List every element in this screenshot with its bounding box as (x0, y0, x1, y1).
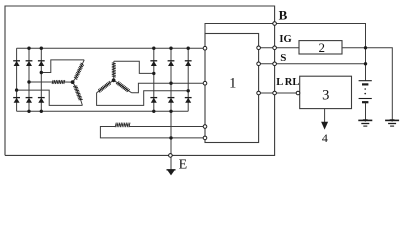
wire L external to unit 3 (275, 92, 297, 94)
node junction (171,48.2) (169, 47, 172, 50)
wire IG connector link (259, 47, 275, 49)
wire top bus (17, 47, 205, 49)
wire rectifier column R3 (187, 48, 189, 111)
wire phase B1 (left arm to left col2) (29, 81, 53, 83)
node junction (171,111.3) (169, 110, 172, 113)
node junction (41.3,48.2) (40, 47, 43, 50)
terminal P terminal (203, 81, 207, 85)
wire field E lead (100, 127, 203, 138)
diode D12 (right bridge bottom) (185, 97, 192, 99)
wire rectifier column L1 (16, 48, 18, 111)
node junction (153.8,48.2) (152, 47, 155, 50)
diode D2 (left bridge top) (26, 60, 33, 62)
stator winding star2 coil left-down arm (97, 91, 100, 93)
diode D9 (right bridge top) (185, 60, 192, 62)
stator winding star1 coil down-right arm (81, 100, 83, 106)
ground (battery) (363, 119, 368, 122)
node junction (188.2,90.8) (187, 89, 190, 92)
resistor/lamp unit 2 box (299, 41, 342, 54)
node star2 neutral (112, 78, 116, 82)
terminal B1 bus terminal (203, 46, 207, 50)
wire rectifier column L2 (28, 48, 30, 111)
battery BT1 (359, 80, 372, 82)
diode D3 (left bridge top) (38, 60, 45, 62)
terminal unit3 terminal (296, 91, 300, 95)
node junction (171,83.2) (169, 82, 172, 85)
wire S connector link (259, 63, 275, 65)
wire E ground stem (170, 157, 172, 170)
wire B output riser (205, 24, 275, 49)
stator winding star2 coil top arm (113, 61, 115, 63)
svg-text:3: 3 (322, 88, 329, 104)
diode D1 (left bridge top) (13, 60, 20, 62)
node junction (29,48.2) (27, 47, 30, 50)
wire phase B2 (left-down arm to right col3) (97, 91, 189, 106)
wire L connector link (259, 92, 275, 94)
svg-text:E: E (179, 158, 188, 173)
wire battery to ground (365, 103, 367, 120)
terminal F terminal (203, 125, 207, 129)
node junction (29,111.3) (27, 110, 30, 113)
terminal Eint terminal (203, 136, 207, 140)
terminal L terminal (273, 91, 277, 95)
wire IG external to resistor 2 (275, 47, 299, 49)
node junction (41.3,111.3) (40, 110, 43, 113)
diode D4 (left bridge bottom) (13, 97, 20, 99)
wire unit 3 output (324, 109, 326, 122)
svg-text:IG: IG (279, 34, 291, 45)
ground arrow E (167, 169, 176, 171)
terminal L box terminal (257, 91, 261, 95)
wire phase C1 (bottom arm to left col1) (17, 90, 83, 105)
svg-text:L: L (276, 77, 283, 88)
node junction (153.8,111.3) (152, 110, 155, 113)
terminal IG box terminal (257, 46, 261, 50)
wire phase A1 (top arm to left col3) (41, 60, 84, 73)
stator winding star1 coil up-right arm (82, 60, 84, 64)
terminal E terminal (169, 154, 173, 158)
wire phase C2 (down-right arm to right col2 and box1 P terminal) (132, 83, 204, 93)
stator winding star1 coil left arm (52, 80, 65, 84)
wire phase A2 (top arm to right col1) (114, 61, 154, 73)
svg-text:RL: RL (285, 77, 300, 88)
wire B external (275, 24, 366, 81)
indicator unit 3 box (300, 76, 352, 108)
ground (load line) (390, 119, 395, 122)
wire resistor 2 output (342, 48, 392, 120)
diode D8 (right bridge top) (168, 60, 175, 62)
node junction (188.2,48.2) (187, 47, 190, 50)
svg-text:4: 4 (322, 131, 328, 145)
terminal S terminal (273, 62, 277, 66)
node star1 neutral (71, 80, 75, 84)
terminal S box terminal (257, 62, 261, 66)
svg-text:B: B (279, 7, 288, 22)
diode D10 (right bridge bottom) (150, 97, 157, 99)
wire bottom bus (17, 110, 189, 112)
terminal B terminal (273, 22, 277, 26)
node junction (153.8,73.4) (152, 72, 155, 75)
node junction (16.6,90.1) (15, 88, 18, 91)
diode D11 (right bridge bottom) (168, 97, 175, 99)
svg-text:S: S (280, 52, 286, 64)
arrow to 4 (321, 122, 328, 130)
alternator enclosure frame (5, 6, 275, 155)
node junction (365.5,47.8) (364, 46, 367, 49)
rotor field winding coil (115, 123, 130, 128)
node junction (29,82) (27, 80, 30, 83)
diode D5 (left bridge bottom) (26, 97, 33, 99)
diode D7 (right bridge top) (150, 60, 157, 62)
terminal IG terminal (273, 46, 277, 50)
svg-text:1: 1 (229, 75, 236, 91)
wire field F lead (129, 126, 203, 128)
wire rectifier column R1 (153, 48, 155, 111)
node junction (41.3,72.5) (40, 71, 43, 74)
wire rectifier column L3 (40, 48, 42, 111)
wire rectifier column R2 (170, 48, 172, 155)
node junction (171,137.9) (169, 136, 172, 139)
wire S external (275, 63, 366, 65)
svg-text:2: 2 (318, 40, 325, 55)
diode D6 (left bridge bottom) (38, 97, 45, 99)
stator winding star2 coil down-right arm (128, 91, 132, 93)
node junction (365.5,63.8) (364, 62, 367, 65)
regulator U1 box (205, 34, 259, 143)
